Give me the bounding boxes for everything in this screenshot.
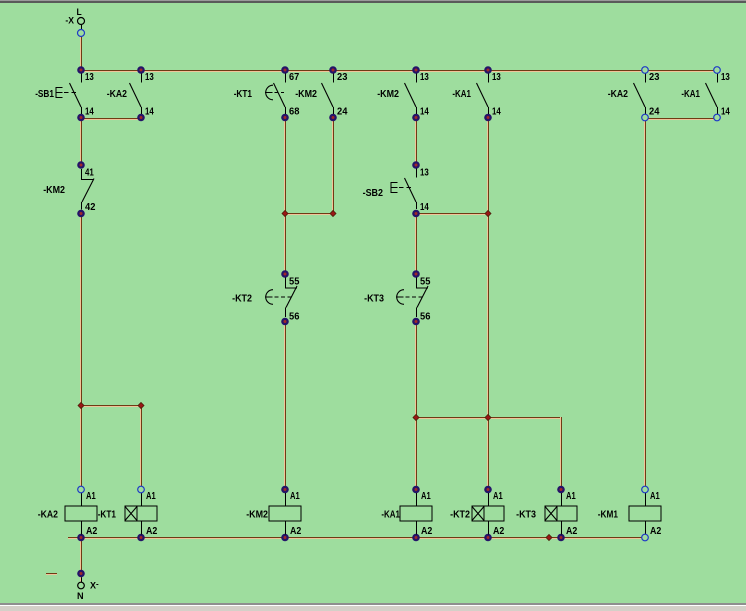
svg-text:14: 14 bbox=[420, 107, 429, 118]
svg-text:-KT1: -KT1 bbox=[234, 89, 253, 100]
svg-text:24: 24 bbox=[337, 107, 348, 118]
svg-text:14: 14 bbox=[420, 202, 429, 213]
svg-text:A2: A2 bbox=[650, 526, 662, 537]
svg-text:-SB2: -SB2 bbox=[363, 188, 384, 199]
svg-text:-KA1: -KA1 bbox=[681, 89, 700, 100]
svg-text:-KT2: -KT2 bbox=[450, 510, 470, 521]
svg-text:42: 42 bbox=[85, 202, 96, 213]
svg-text:-KT1: -KT1 bbox=[98, 510, 117, 521]
svg-text:-KM2: -KM2 bbox=[246, 510, 268, 521]
svg-text:-SB1: -SB1 bbox=[35, 89, 54, 100]
svg-text:14: 14 bbox=[721, 107, 730, 118]
svg-text:-KA1: -KA1 bbox=[452, 89, 471, 100]
svg-text:13: 13 bbox=[492, 72, 501, 83]
svg-text:13: 13 bbox=[145, 72, 154, 83]
svg-text:23: 23 bbox=[337, 72, 348, 83]
svg-text:A1: A1 bbox=[566, 491, 576, 502]
svg-text:-KT3: -KT3 bbox=[516, 510, 536, 521]
svg-text:55: 55 bbox=[289, 277, 300, 288]
svg-text:67: 67 bbox=[289, 72, 300, 83]
svg-text:A1: A1 bbox=[86, 491, 96, 502]
svg-text:-KM1: -KM1 bbox=[598, 510, 619, 521]
svg-text:14: 14 bbox=[492, 107, 501, 118]
svg-text:41: 41 bbox=[85, 168, 94, 179]
svg-text:-KM2: -KM2 bbox=[43, 185, 65, 196]
svg-text:A2: A2 bbox=[566, 526, 578, 537]
svg-text:A2: A2 bbox=[290, 526, 302, 537]
svg-text:68: 68 bbox=[289, 107, 300, 118]
svg-text:A2: A2 bbox=[493, 526, 505, 537]
svg-text:55: 55 bbox=[420, 277, 431, 288]
svg-text:-KA2: -KA2 bbox=[107, 89, 128, 100]
svg-text:14: 14 bbox=[145, 107, 154, 118]
svg-text:24: 24 bbox=[649, 107, 660, 118]
svg-text:56: 56 bbox=[289, 312, 300, 323]
svg-text:A2: A2 bbox=[146, 526, 158, 537]
svg-text:-KA2: -KA2 bbox=[608, 89, 629, 100]
svg-text:-KM2: -KM2 bbox=[295, 89, 317, 100]
svg-text:A2: A2 bbox=[421, 526, 433, 537]
svg-text:13: 13 bbox=[420, 168, 429, 179]
svg-text:13: 13 bbox=[85, 72, 94, 83]
svg-text:56: 56 bbox=[420, 312, 431, 323]
svg-text:-KA1: -KA1 bbox=[381, 510, 400, 521]
svg-text:A1: A1 bbox=[421, 491, 431, 502]
svg-text:A1: A1 bbox=[493, 491, 503, 502]
svg-text:-KT2: -KT2 bbox=[232, 294, 252, 305]
svg-text:A1: A1 bbox=[146, 491, 156, 502]
svg-text:A2: A2 bbox=[86, 526, 98, 537]
svg-text:A1: A1 bbox=[290, 491, 300, 502]
svg-text:13: 13 bbox=[420, 72, 429, 83]
svg-text:13: 13 bbox=[721, 72, 730, 83]
svg-text:A1: A1 bbox=[650, 491, 660, 502]
svg-text:-KA2: -KA2 bbox=[38, 510, 59, 521]
svg-text:-X: -X bbox=[65, 16, 74, 26]
svg-text:23: 23 bbox=[649, 72, 660, 83]
svg-text:14: 14 bbox=[85, 107, 94, 118]
svg-text:N: N bbox=[77, 591, 84, 601]
svg-text:-KT3: -KT3 bbox=[364, 294, 384, 305]
svg-text:L: L bbox=[77, 7, 83, 17]
svg-text:-KM2: -KM2 bbox=[377, 89, 399, 100]
